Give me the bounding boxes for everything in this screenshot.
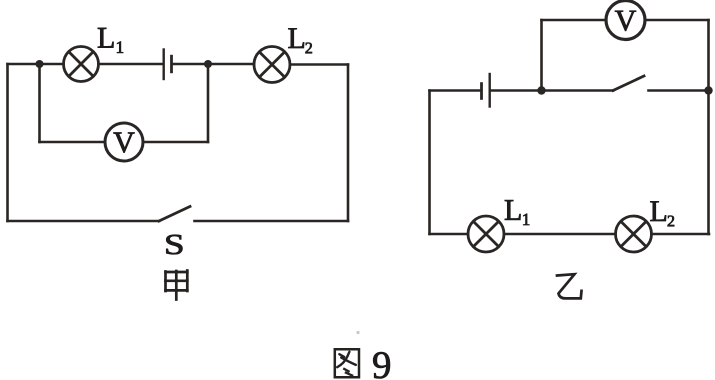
wire: 乙 top wire, battery to node bbox=[492, 89, 614, 92]
wire: circuit 甲 left vertical bbox=[6, 64, 9, 221]
wire: 甲 top wire right segment bbox=[290, 63, 348, 66]
label L1 (circuit 甲) bbox=[98, 28, 123, 53]
wire: 乙 top wire right of switch bbox=[649, 89, 710, 92]
wire: 乙 bottom wire middle segment bbox=[504, 233, 616, 236]
wire: voltmeter branch left vertical (circuit 乙) bbox=[540, 20, 543, 91]
wire: voltmeter branch left horizontal (circuit 甲) bbox=[40, 141, 106, 144]
lamp L2 (circuit 甲) bbox=[254, 47, 290, 83]
label L2 (circuit 乙) bbox=[650, 201, 674, 226]
switch blade (circuit 乙, open) bbox=[613, 76, 644, 91]
wire: circuit 乙 bottom wire left segment bbox=[430, 233, 469, 236]
label 乙 (right circuit name, drawn glyph) bbox=[557, 274, 582, 298]
wire: circuit 甲 top wire left segment bbox=[8, 63, 64, 66]
label V (voltmeter of circuit 乙) bbox=[615, 11, 636, 31]
battery (circuit 甲) bbox=[164, 50, 172, 80]
node dot: 乙 voltmeter tap junction bbox=[537, 86, 545, 94]
wire: voltmeter branch left vertical (circuit 甲) bbox=[38, 64, 41, 142]
wire: voltmeter branch left horizontal (circuit 乙) bbox=[542, 19, 607, 22]
wire: circuit 甲 right vertical bbox=[347, 65, 350, 222]
switch S blade (circuit 甲, open) bbox=[159, 207, 190, 222]
wire: voltmeter branch right vertical (circuit 甲) bbox=[207, 64, 210, 142]
wire: circuit 乙 top wire left segment bbox=[430, 89, 481, 92]
wire: circuit 甲 bottom wire left of switch bbox=[8, 220, 160, 223]
wire: 乙 bottom wire right segment bbox=[652, 233, 710, 236]
caption numeral 9 bbox=[373, 352, 390, 378]
label L1 (circuit 乙) bbox=[505, 200, 529, 225]
lamp L2 (circuit 乙) bbox=[616, 216, 652, 252]
wire: 甲 top wire, battery to lamp L2 bbox=[174, 63, 255, 66]
label 甲 (left circuit name, drawn glyph) bbox=[166, 271, 188, 300]
node dot: 甲 top-middle junction bbox=[204, 60, 212, 68]
voltmeter V (circuit 乙) bbox=[606, 1, 645, 40]
wire: voltmeter branch right horizontal (circuit 甲) bbox=[143, 141, 208, 144]
caption 图 (drawn glyph) bbox=[335, 349, 359, 377]
label L2 (circuit 甲) bbox=[288, 28, 312, 53]
label V (voltmeter of circuit 甲) bbox=[114, 133, 135, 153]
lamp L1 (circuit 乙) bbox=[468, 216, 504, 252]
wire: circuit 甲 bottom wire right of switch bbox=[195, 220, 349, 223]
wire: circuit 乙 left vertical bbox=[428, 91, 431, 235]
label S (switch of circuit 甲) bbox=[166, 235, 182, 254]
wire: 甲 top wire, lamp L1 to battery bbox=[99, 63, 163, 66]
wire: voltmeter branch right horizontal (circuit 乙) bbox=[645, 19, 709, 22]
node dot: 乙 top-right junction bbox=[704, 86, 712, 94]
voltmeter V (circuit 甲) bbox=[105, 123, 143, 161]
lamp L1 (circuit 甲) bbox=[64, 47, 99, 82]
node dot: 甲 top-left junction bbox=[36, 60, 44, 68]
battery (circuit 乙) bbox=[482, 74, 490, 107]
wire: circuit 乙 right vertical bbox=[707, 20, 710, 234]
